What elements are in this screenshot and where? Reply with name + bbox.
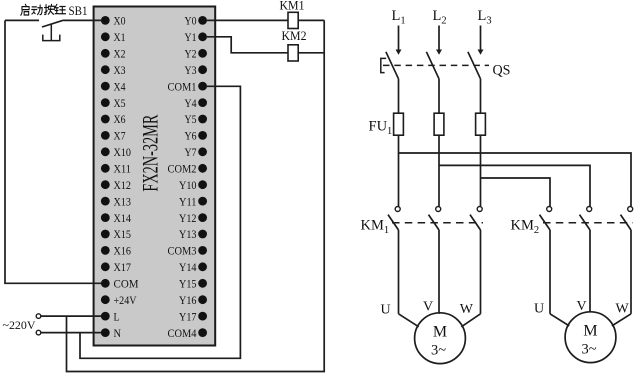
svg-text:L: L (114, 309, 120, 323)
svg-text:Y10: Y10 (179, 178, 197, 192)
svg-text:Y16: Y16 (179, 293, 197, 307)
svg-text:X0: X0 (114, 14, 126, 28)
svg-text:COM2: COM2 (168, 162, 197, 176)
svg-text:KM2: KM2 (282, 29, 307, 43)
svg-text:X1: X1 (114, 30, 126, 44)
svg-text:M: M (583, 323, 597, 340)
svg-text:V: V (423, 300, 433, 315)
svg-text:Y14: Y14 (179, 260, 197, 274)
svg-text:Y15: Y15 (179, 277, 197, 291)
svg-text:W: W (460, 302, 474, 317)
svg-text:~220V: ~220V (3, 318, 36, 332)
svg-text:Y3: Y3 (185, 63, 197, 77)
svg-text:X16: X16 (114, 244, 132, 258)
svg-text:X12: X12 (114, 178, 132, 192)
svg-text:X5: X5 (114, 96, 126, 110)
svg-text:COM: COM (114, 277, 139, 291)
svg-text:Y4: Y4 (185, 96, 197, 110)
svg-text:SB1: SB1 (69, 3, 88, 18)
svg-text:FX2N-32MR: FX2N-32MR (137, 114, 162, 191)
svg-text:X7: X7 (114, 129, 126, 143)
svg-text:Y6: Y6 (185, 129, 197, 143)
svg-text:X17: X17 (114, 260, 132, 274)
svg-text:Y1: Y1 (185, 30, 197, 44)
svg-text:V: V (577, 299, 587, 314)
svg-text:Y0: Y0 (185, 14, 197, 28)
svg-text:X3: X3 (114, 63, 126, 77)
svg-text:X2: X2 (114, 47, 126, 61)
svg-text:COM3: COM3 (168, 244, 197, 258)
svg-text:Y12: Y12 (179, 211, 197, 225)
svg-text:KM1: KM1 (280, 0, 305, 13)
svg-text:COM4: COM4 (168, 326, 197, 340)
svg-text:Y13: Y13 (179, 227, 197, 241)
svg-text:X6: X6 (114, 112, 126, 126)
svg-text:Y5: Y5 (185, 112, 197, 126)
svg-text:N: N (114, 326, 122, 340)
svg-text:COM1: COM1 (168, 79, 197, 93)
svg-text:3~: 3~ (581, 342, 596, 358)
svg-text:U: U (534, 302, 544, 317)
svg-text:Y7: Y7 (185, 145, 197, 159)
svg-text:+24V: +24V (114, 293, 137, 307)
svg-text:Y17: Y17 (179, 309, 197, 323)
svg-text:Y2: Y2 (185, 47, 197, 61)
svg-text:M: M (433, 324, 447, 341)
svg-text:Y11: Y11 (179, 194, 197, 208)
svg-text:X14: X14 (114, 211, 132, 225)
svg-text:U: U (381, 303, 391, 318)
svg-text:X11: X11 (114, 162, 132, 176)
svg-text:X15: X15 (114, 227, 132, 241)
svg-text:W: W (616, 302, 630, 317)
svg-text:X10: X10 (114, 145, 132, 159)
svg-text:QS: QS (493, 63, 511, 79)
svg-text:X13: X13 (114, 194, 132, 208)
svg-text:X4: X4 (114, 79, 126, 93)
svg-text:3~: 3~ (431, 343, 446, 359)
